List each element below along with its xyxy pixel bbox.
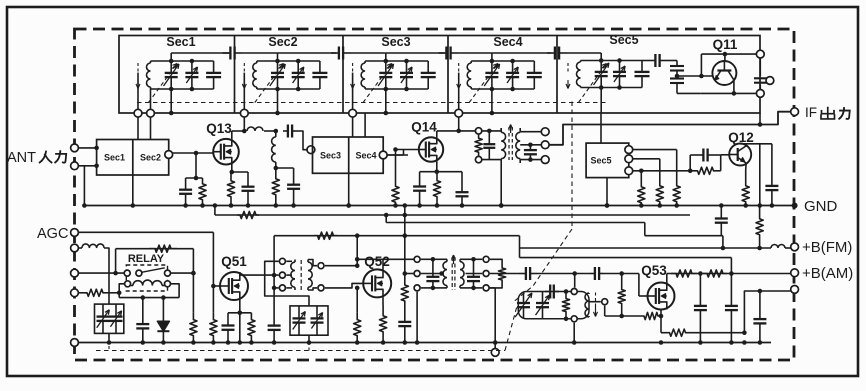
svg-text:Q11: Q11 [713,37,738,52]
svg-text:Sec1: Sec1 [104,153,125,163]
svg-text:Q14: Q14 [411,120,437,135]
svg-text:RELAY: RELAY [128,253,165,265]
svg-text:Sec3: Sec3 [381,35,410,49]
svg-text:Sec3: Sec3 [320,151,341,161]
svg-text:GND: GND [804,198,838,215]
svg-text:Sec2: Sec2 [268,35,297,49]
svg-text:+B(AM): +B(AM) [802,265,853,282]
svg-text:+B(FM): +B(FM) [802,239,852,256]
svg-text:Sec4: Sec4 [355,151,376,161]
svg-text:ANT: ANT [7,150,36,166]
svg-text:Sec5: Sec5 [609,33,638,47]
svg-text:Q53: Q53 [641,263,667,278]
svg-text:Sec5: Sec5 [590,156,611,166]
svg-text:IF: IF [805,105,817,120]
svg-text:AGC: AGC [37,226,68,242]
svg-text:Sec2: Sec2 [140,153,161,163]
svg-text:Sec4: Sec4 [493,35,522,49]
svg-text:Q51: Q51 [221,254,247,269]
svg-text:Q13: Q13 [206,121,232,136]
svg-text:Q52: Q52 [364,254,390,269]
svg-text:Sec1: Sec1 [166,35,195,49]
